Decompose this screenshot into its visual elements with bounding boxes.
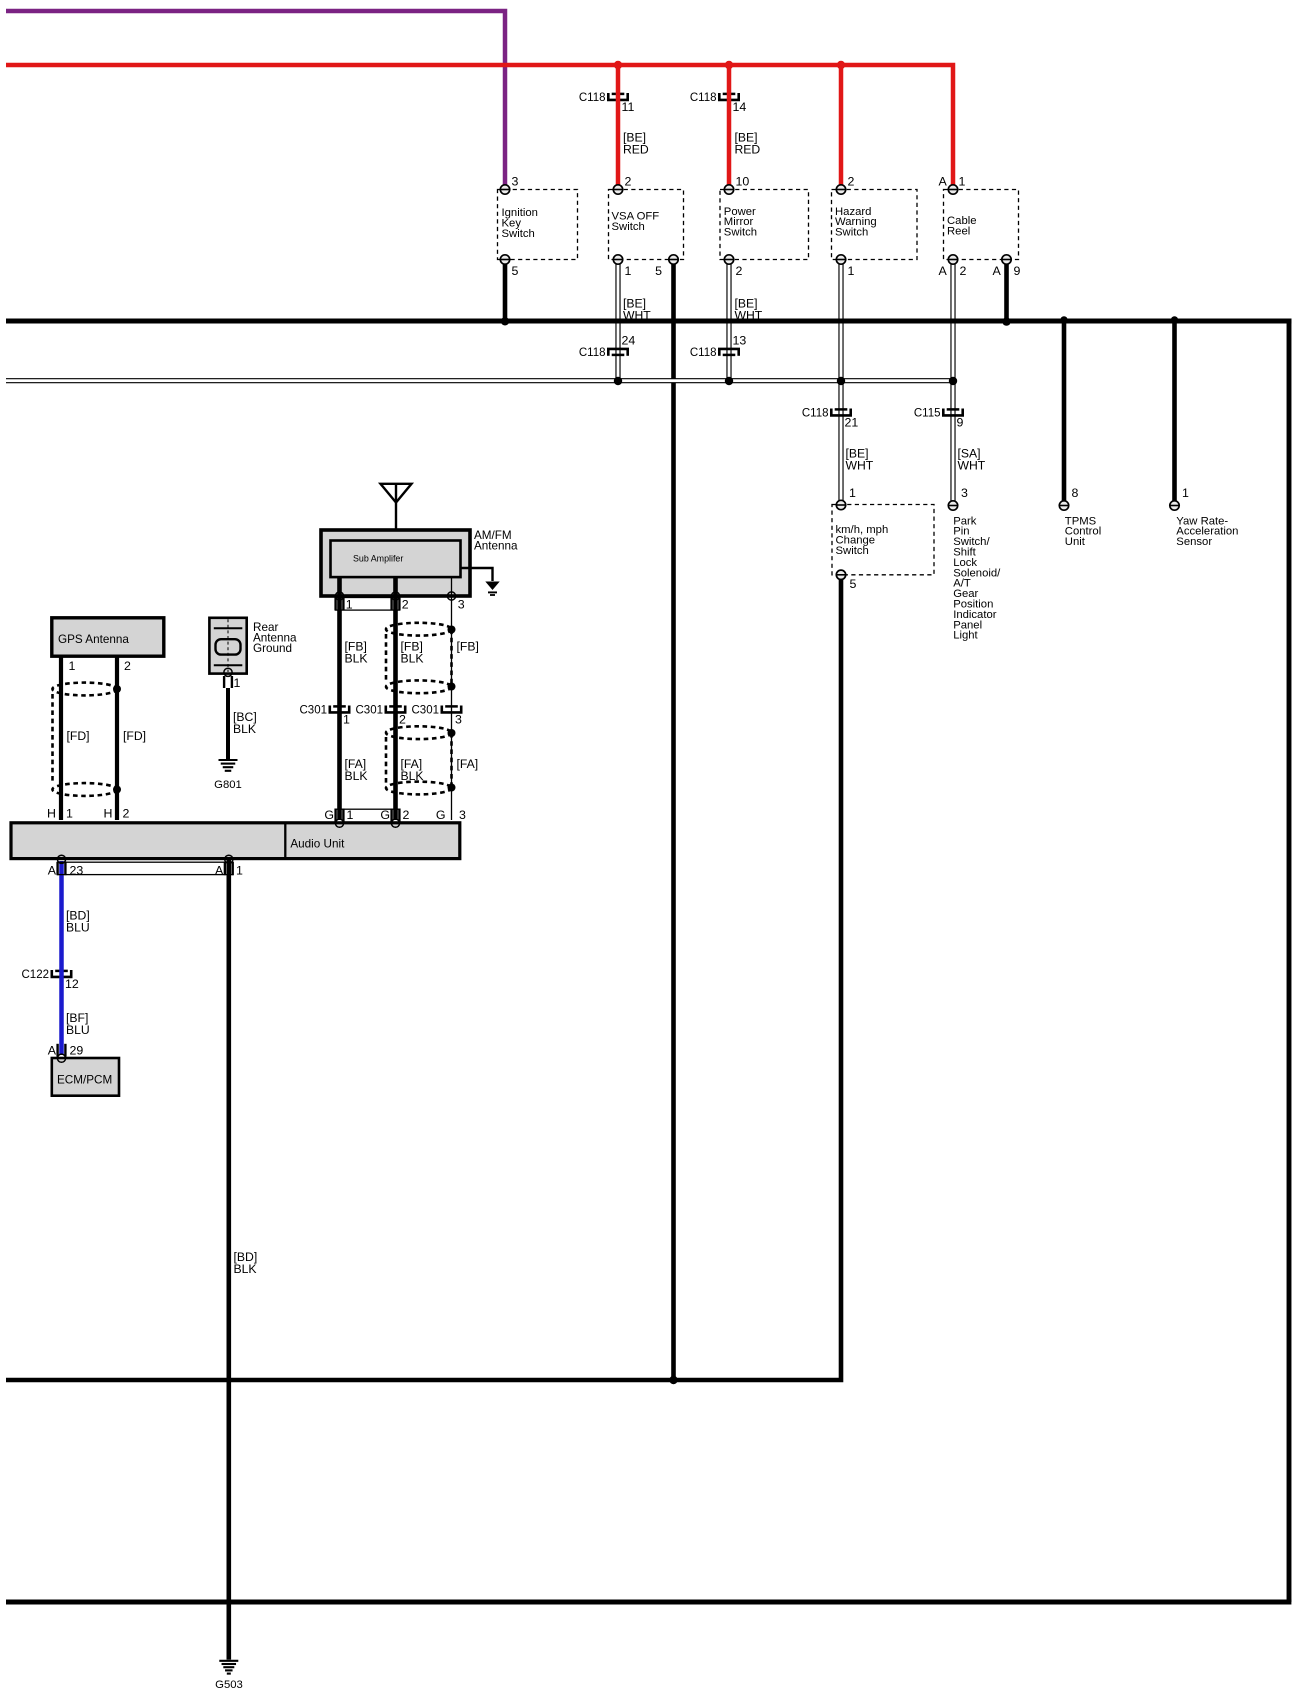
svg-text:10: 10 <box>736 174 750 188</box>
svg-text:1: 1 <box>849 486 856 500</box>
svg-text:BLK: BLK <box>233 722 256 736</box>
svg-text:2: 2 <box>124 659 131 673</box>
svg-text:9: 9 <box>1014 264 1021 278</box>
svg-text:1: 1 <box>236 864 243 878</box>
svg-text:3: 3 <box>459 808 466 822</box>
svg-text:[FB]: [FB] <box>457 640 479 654</box>
svg-text:21: 21 <box>845 415 859 429</box>
svg-text:[FD]: [FD] <box>67 729 90 743</box>
svg-text:5: 5 <box>655 264 662 278</box>
svg-text:1: 1 <box>66 807 73 821</box>
svg-text:Light: Light <box>953 630 978 642</box>
svg-text:C118: C118 <box>690 92 717 104</box>
svg-text:12: 12 <box>65 977 79 991</box>
svg-text:2: 2 <box>399 712 406 726</box>
svg-text:1: 1 <box>69 659 76 673</box>
svg-text:[FD]: [FD] <box>123 729 146 743</box>
svg-text:A: A <box>939 264 948 278</box>
svg-text:G: G <box>324 808 334 822</box>
svg-text:G801: G801 <box>214 779 242 791</box>
svg-text:C118: C118 <box>802 408 829 420</box>
svg-text:9: 9 <box>957 415 964 429</box>
svg-text:2: 2 <box>403 808 410 822</box>
svg-text:WHT: WHT <box>735 309 763 323</box>
svg-text:11: 11 <box>622 100 635 114</box>
svg-text:1: 1 <box>848 264 855 278</box>
svg-text:BLK: BLK <box>345 769 368 783</box>
svg-text:Switch: Switch <box>612 221 645 233</box>
svg-text:2: 2 <box>625 174 632 188</box>
svg-text:C301: C301 <box>300 705 328 717</box>
svg-text:5: 5 <box>850 577 857 591</box>
svg-text:C301: C301 <box>412 705 440 717</box>
svg-text:A: A <box>215 864 224 878</box>
svg-text:2: 2 <box>402 598 409 612</box>
svg-text:[FA]: [FA] <box>457 757 479 771</box>
svg-text:Switch: Switch <box>502 228 535 240</box>
svg-text:1: 1 <box>625 264 632 278</box>
svg-text:8: 8 <box>1072 486 1079 500</box>
svg-text:A: A <box>48 864 57 878</box>
svg-text:2: 2 <box>123 807 130 821</box>
svg-text:WHT: WHT <box>846 459 874 473</box>
svg-text:Switch: Switch <box>836 545 869 557</box>
svg-text:C115: C115 <box>914 408 941 420</box>
svg-text:A: A <box>939 174 948 188</box>
svg-text:Antenna: Antenna <box>474 539 518 552</box>
svg-text:RED: RED <box>623 143 649 157</box>
svg-text:H: H <box>47 807 56 821</box>
svg-text:BLU: BLU <box>66 1023 90 1037</box>
svg-text:WHT: WHT <box>958 459 986 473</box>
svg-text:1: 1 <box>346 598 353 612</box>
svg-text:1: 1 <box>343 712 350 726</box>
svg-text:G: G <box>436 808 446 822</box>
svg-text:C118: C118 <box>579 347 606 359</box>
svg-text:C118: C118 <box>579 92 606 104</box>
svg-text:A: A <box>48 1044 57 1058</box>
svg-text:2: 2 <box>848 174 855 188</box>
svg-text:3: 3 <box>961 486 968 500</box>
svg-text:29: 29 <box>70 1044 84 1058</box>
svg-text:2: 2 <box>960 264 967 278</box>
svg-text:ECM/PCM: ECM/PCM <box>57 1073 112 1086</box>
svg-text:3: 3 <box>512 174 519 188</box>
svg-text:H: H <box>104 807 113 821</box>
svg-text:G: G <box>380 808 390 822</box>
svg-text:23: 23 <box>70 864 84 878</box>
svg-text:14: 14 <box>733 100 747 114</box>
svg-text:1: 1 <box>234 676 241 690</box>
svg-text:2: 2 <box>736 264 743 278</box>
svg-text:C118: C118 <box>690 347 717 359</box>
svg-text:Switch: Switch <box>835 227 868 239</box>
svg-text:Audio Unit: Audio Unit <box>290 838 345 851</box>
svg-text:C301: C301 <box>356 705 384 717</box>
svg-text:BLK: BLK <box>234 1262 257 1276</box>
svg-text:Switch: Switch <box>724 227 757 239</box>
svg-text:3: 3 <box>458 598 465 612</box>
svg-text:Reel: Reel <box>947 225 970 237</box>
svg-text:BLK: BLK <box>401 769 424 783</box>
svg-text:BLK: BLK <box>345 652 368 666</box>
svg-text:5: 5 <box>512 264 519 278</box>
svg-text:WHT: WHT <box>623 309 651 323</box>
svg-text:RED: RED <box>735 143 761 157</box>
svg-text:24: 24 <box>622 333 636 347</box>
svg-text:A: A <box>993 264 1002 278</box>
svg-text:BLU: BLU <box>66 921 90 935</box>
svg-text:G503: G503 <box>215 1679 243 1691</box>
svg-text:C122: C122 <box>22 969 50 981</box>
svg-text:BLK: BLK <box>401 652 424 666</box>
svg-text:GPS Antenna: GPS Antenna <box>58 633 129 646</box>
svg-text:1: 1 <box>347 808 354 822</box>
svg-text:Sensor: Sensor <box>1176 536 1212 548</box>
svg-text:13: 13 <box>733 333 747 347</box>
svg-text:1: 1 <box>959 174 966 188</box>
svg-text:Ground: Ground <box>253 642 292 655</box>
svg-text:1: 1 <box>1182 486 1189 500</box>
svg-text:Unit: Unit <box>1065 536 1086 548</box>
svg-text:Sub Amplifer: Sub Amplifer <box>353 554 403 564</box>
svg-text:3: 3 <box>455 712 462 726</box>
